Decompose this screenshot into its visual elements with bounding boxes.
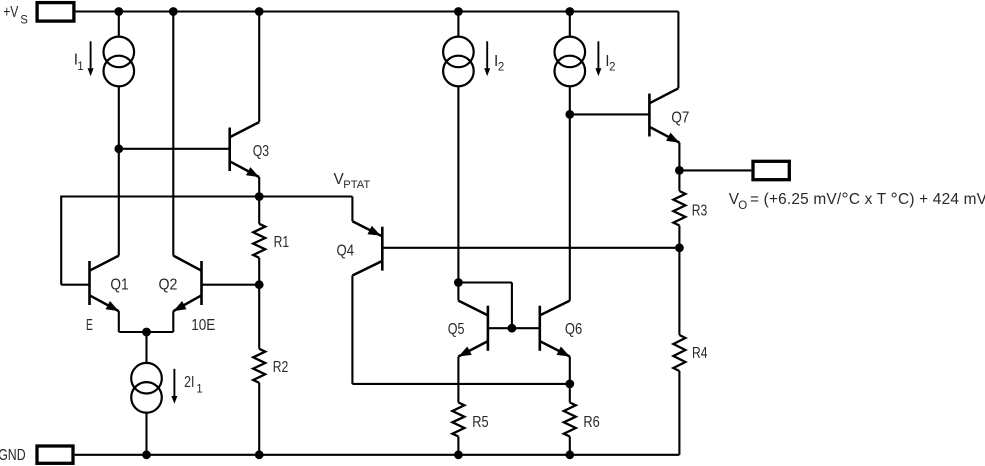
resistor R5 (452, 403, 464, 437)
svg-text:+V: +V (3, 4, 19, 21)
wire node to R4 (678, 248, 680, 335)
node gnd at 2I1 (142, 450, 151, 459)
transistor Q4 (352, 221, 382, 275)
wire R5 to gnd (457, 437, 459, 455)
wire Q6 emitter to R6 (569, 384, 571, 403)
svg-text:1: 1 (196, 384, 202, 396)
resistor R4 (673, 335, 685, 371)
svg-text:S: S (20, 15, 28, 27)
svg-text:Q6: Q6 (565, 321, 582, 338)
wire to 2I1 (145, 332, 147, 363)
resistor R6 (564, 403, 576, 437)
transistor Q2 (173, 256, 259, 312)
svg-text:1: 1 (77, 61, 83, 73)
node top-rail at I2a (454, 7, 463, 16)
node gnd at R2 (255, 450, 264, 459)
svg-text:R5: R5 (472, 414, 488, 431)
wire Vptat (61, 195, 352, 197)
wire +Vs top rail (76, 10, 679, 12)
wire Q7 collector (677, 12, 679, 89)
wire output (679, 169, 751, 171)
wire rail to I2a (457, 12, 459, 37)
label Q1 (110, 277, 128, 294)
transistor Q5 (458, 301, 539, 357)
node common emitter (142, 328, 151, 337)
pin +Vs (3, 3, 74, 27)
svg-text:Q4: Q4 (337, 243, 355, 260)
label R2 (273, 359, 289, 376)
wire Q2 collector (172, 12, 174, 256)
wire rail to I2b (569, 12, 571, 37)
resistor R2 (253, 349, 265, 383)
node top-rail at Q3 collector (255, 7, 264, 16)
label Q2 (159, 277, 178, 294)
wire Q1 base drop (61, 196, 89, 285)
wire common emitters (119, 331, 174, 333)
svg-text:Q3: Q3 (253, 143, 269, 160)
resistor R3 (673, 191, 685, 226)
node top-rail at Q2 collector (169, 7, 178, 16)
current source I2b (555, 37, 586, 87)
wire Vptat to Q4 emitter (351, 197, 353, 222)
wire Q4 collector drop (351, 276, 353, 384)
label Q3 (253, 143, 269, 160)
current source I2a (443, 37, 474, 87)
label Q4 (337, 243, 355, 260)
wire output node to R3 (678, 170, 680, 191)
transistor Q3 (119, 122, 259, 177)
wire Vptat to R1 (258, 197, 260, 224)
svg-text:2: 2 (498, 62, 504, 74)
node Q3 base tap (114, 144, 123, 153)
svg-text:= (+6.25 mV/°C x T °C) + 424 m: = (+6.25 mV/°C x T °C) + 424 mV (750, 190, 985, 210)
label Q5 (448, 321, 465, 338)
wire node to R2 (258, 285, 260, 349)
current source I1 (104, 37, 135, 87)
node R3-R4 (675, 243, 684, 252)
wire I2a down (457, 86, 459, 282)
wire Q3 emitter to Vptat (258, 177, 260, 196)
svg-text:PTAT: PTAT (343, 179, 370, 191)
node R1-R2 (255, 280, 264, 289)
svg-text:10E: 10E (191, 317, 215, 334)
label I1 (74, 52, 84, 73)
node top-rail at I1 (114, 7, 123, 16)
wire Q2 emitter (172, 311, 174, 332)
svg-text:R2: R2 (273, 359, 289, 376)
wire node to Q5 (457, 283, 459, 301)
wire Q4 base (382, 247, 679, 249)
svg-text:R3: R3 (692, 203, 708, 220)
pin GND (0, 446, 73, 464)
svg-text:R1: R1 (274, 234, 290, 251)
wire I2b down (569, 86, 571, 114)
label 10E (191, 317, 215, 334)
wire 2I1 to gnd (145, 413, 147, 455)
current source 2I1 (131, 363, 162, 413)
node Vptat (255, 192, 264, 201)
transistor Q7 (570, 88, 680, 142)
label E (86, 317, 93, 334)
label Q6 (565, 321, 582, 338)
arrow 2I1 (171, 369, 177, 404)
arrow I2a (484, 41, 490, 76)
wire I1 to node (118, 86, 120, 149)
svg-text:Q1: Q1 (110, 277, 128, 294)
wire R1 to node (258, 258, 260, 285)
arrow I1 (88, 41, 94, 76)
wire R2 to gnd (258, 383, 260, 455)
label I2a (494, 53, 504, 73)
label Vptat (334, 171, 371, 191)
node Q6 emitter (565, 380, 574, 389)
label R6 (583, 414, 599, 431)
wire R6 to gnd (569, 437, 571, 455)
node gnd at R6 (565, 450, 574, 459)
svg-text:GND: GND (0, 447, 26, 464)
svg-text:Q7: Q7 (671, 110, 689, 127)
wire Q4 collector to mirror (352, 383, 569, 385)
wire Q1 emitter (118, 311, 120, 332)
svg-text:R4: R4 (692, 345, 708, 362)
label 2I1 (184, 374, 203, 395)
wire R3 to node (678, 226, 680, 248)
wire I2b to Q6 collector (569, 114, 571, 300)
label Q7 (671, 110, 689, 127)
svg-text:O: O (738, 200, 747, 212)
wire rail to I1 (118, 12, 120, 37)
label R5 (472, 414, 488, 431)
node Q5 collector (454, 278, 463, 287)
arrow I2b (595, 41, 601, 76)
transistor Q6 (540, 301, 570, 357)
label Vo formula (729, 190, 985, 212)
wire Q5 emitter to R5 (457, 357, 459, 403)
label I2b (605, 53, 615, 73)
node output (675, 166, 684, 175)
node gnd at R5 (454, 450, 463, 459)
label R4 (692, 345, 708, 362)
svg-text:2: 2 (609, 62, 615, 74)
transistor Q1 (90, 256, 119, 312)
svg-text:R6: R6 (583, 414, 599, 431)
svg-text:Q5: Q5 (448, 321, 465, 338)
node Q5-Q6 bases (508, 324, 517, 333)
wire Q3 collector (258, 12, 260, 123)
svg-text:Q2: Q2 (159, 277, 178, 294)
node Q7 base tap (565, 110, 574, 119)
wire ground rail (75, 454, 680, 456)
svg-text:E: E (86, 317, 93, 334)
wire mirror tie (458, 283, 512, 329)
node top-rail at I2b (565, 7, 574, 16)
wire node to Q1 collector (118, 149, 120, 256)
pin Vo (753, 161, 789, 179)
label R3 (692, 203, 708, 220)
svg-text:2I: 2I (184, 374, 194, 391)
resistor R1 (253, 224, 265, 258)
wire R4 to gnd (678, 371, 680, 455)
wire Q6 emitter (569, 357, 571, 384)
label R1 (274, 234, 290, 251)
wire Q7 emitter (678, 143, 680, 171)
